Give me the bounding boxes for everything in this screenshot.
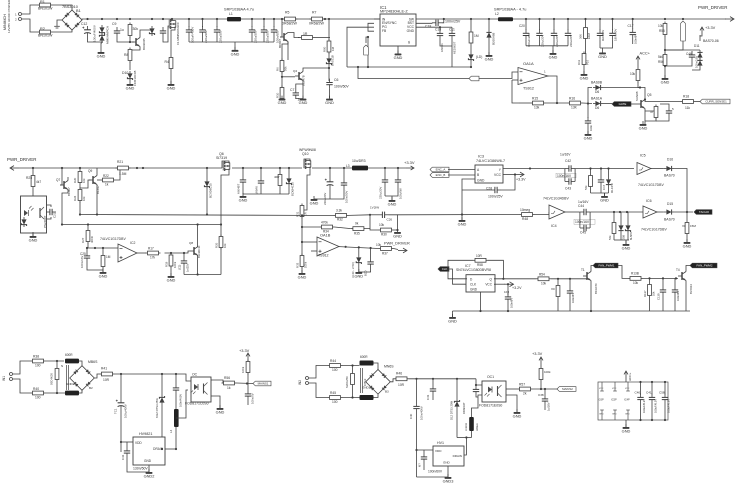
svg-text:TC1: TC1 — [114, 408, 118, 414]
wire — [507, 303, 509, 311]
svg-text:SRP1038AA - 4.7u: SRP1038AA - 4.7u — [494, 8, 526, 12]
svg-text:IC4P: IC4P — [624, 398, 630, 402]
net tag (vsense) — [681, 21, 686, 41]
wire — [567, 19, 569, 30]
net tag TACHO — [694, 210, 712, 215]
junction — [79, 167, 81, 169]
wire rail to L3 — [312, 167, 352, 169]
capacitor C25a — [382, 176, 388, 186]
wire — [126, 442, 128, 447]
svg-text:VDD: VDD — [435, 449, 442, 453]
inductor T1a (600R) — [65, 359, 79, 364]
svg-text:OC1: OC1 — [487, 375, 494, 379]
svg-text:MAINS1: MAINS1 — [258, 382, 269, 386]
svg-text:C41: C41 — [646, 391, 652, 395]
svg-text:56k: 56k — [608, 235, 612, 240]
diode D11a BAS70-06 — [697, 50, 702, 60]
wire — [600, 48, 603, 50]
svg-text:100n/400V: 100n/400V — [420, 406, 424, 420]
junction — [301, 226, 303, 228]
svg-text:C25: C25 — [80, 252, 86, 256]
diode D6 BAS0B — [593, 85, 603, 90]
junction — [502, 278, 504, 280]
svg-text:GND: GND — [298, 274, 307, 279]
buffer IC2 — [118, 244, 137, 262]
wire C28 left — [462, 189, 491, 191]
wire — [640, 382, 642, 395]
junction — [151, 18, 153, 20]
wire to Q9 base — [80, 180, 91, 188]
wire — [613, 212, 615, 221]
svg-text:+3.2V: +3.2V — [512, 286, 522, 290]
wire — [699, 36, 701, 41]
svg-text:IC2: IC2 — [130, 241, 135, 245]
wire — [539, 19, 541, 30]
svg-text:R5: R5 — [285, 11, 289, 15]
svg-text:30k: 30k — [133, 27, 139, 31]
IC3 74LVC1G86 — [475, 165, 503, 183]
wire — [279, 188, 281, 195]
junction — [644, 98, 646, 100]
junction — [161, 373, 163, 375]
junction — [470, 18, 472, 20]
wire C31 down — [120, 409, 122, 452]
ground — [580, 71, 589, 80]
svg-text:BZD: BZD — [364, 271, 368, 276]
wire — [590, 169, 592, 174]
svg-text:R33: R33 — [296, 262, 300, 268]
resistor R22 — [101, 178, 116, 182]
op-amp OA1A — [518, 68, 548, 85]
svg-text:+3.3V: +3.3V — [705, 25, 716, 30]
wire — [651, 404, 653, 421]
wire to R18 — [645, 100, 681, 102]
junction — [61, 167, 63, 169]
svg-text:AED600T: AED600T — [453, 41, 457, 54]
junction — [206, 167, 208, 169]
junction — [120, 441, 122, 443]
junction — [216, 18, 218, 20]
capacitor (output bank) — [523, 29, 529, 39]
junction — [439, 26, 441, 28]
wire VDD — [121, 441, 133, 443]
wire — [456, 379, 458, 399]
svg-text:L2: L2 — [495, 12, 499, 16]
ground — [622, 241, 631, 250]
capacitor C17 — [630, 29, 636, 39]
wire — [202, 19, 204, 27]
junction — [686, 211, 688, 213]
svg-text:R58: R58 — [477, 263, 483, 267]
svg-text:C45: C45 — [580, 231, 586, 235]
diode D18 — [618, 223, 623, 233]
svg-text:IC6P: IC6P — [598, 398, 604, 402]
svg-text:11k: 11k — [685, 106, 690, 110]
svg-text:Q8: Q8 — [189, 241, 193, 245]
wire C37 to cathode — [476, 396, 478, 398]
svg-text:1k: 1k — [105, 183, 109, 187]
wire — [161, 374, 163, 395]
svg-text:GND: GND — [661, 79, 670, 84]
junction — [120, 373, 122, 375]
diode D2 — [326, 56, 331, 66]
wire — [557, 299, 559, 312]
wire OC out — [211, 380, 225, 383]
junction — [432, 378, 434, 380]
ground — [584, 131, 593, 140]
svg-text:10k: 10k — [379, 223, 385, 227]
junction — [251, 18, 253, 20]
svg-text:10R: 10R — [398, 383, 405, 387]
resistor R13 — [584, 26, 588, 41]
svg-text:R11: R11 — [577, 60, 581, 65]
wire — [102, 248, 104, 254]
ground — [310, 196, 319, 205]
capacitor C?o — [367, 258, 373, 268]
capacitor (output bank) — [536, 29, 542, 39]
junction — [651, 419, 653, 421]
inductor L6 — [469, 417, 474, 431]
svg-text:GND: GND — [513, 413, 522, 418]
ground — [231, 47, 240, 56]
resistor R56 — [663, 53, 667, 68]
junction — [351, 364, 353, 366]
junction — [461, 213, 463, 215]
svg-text:4R7: 4R7 — [274, 175, 280, 179]
junction — [553, 18, 555, 20]
svg-text:C33: C33 — [426, 394, 430, 400]
svg-text:BCX470: BCX470 — [594, 283, 598, 294]
svg-text:100n/60V: 100n/60V — [428, 470, 443, 474]
wire — [385, 186, 398, 196]
bridge rectifier B3 (MN6S) — [366, 370, 391, 395]
svg-text:FCB10C08: FCB10C08 — [133, 70, 137, 86]
svg-text:BAS70: BAS70 — [664, 218, 675, 222]
svg-text:FOD8171C0S0: FOD8171C0S0 — [185, 402, 209, 406]
wire — [391, 196, 393, 200]
capacitor C36 — [421, 453, 427, 463]
capacitor C16 (after L1) — [249, 26, 255, 36]
capacitor C34 — [173, 384, 179, 394]
wire — [470, 45, 472, 52]
wire — [309, 366, 328, 379]
junction — [201, 18, 203, 20]
svg-text:PWR_DRIVER: PWR_DRIVER — [384, 242, 410, 246]
resistor R58 — [473, 258, 488, 262]
svg-text:R57: R57 — [519, 383, 525, 387]
junction — [590, 310, 592, 312]
wire PG loop — [347, 27, 374, 67]
junction — [415, 378, 417, 380]
wire rect rail 1 — [115, 374, 192, 381]
wire D12 down — [456, 409, 458, 438]
resistor R46 — [394, 377, 409, 381]
svg-text:GND: GND — [278, 100, 287, 105]
wire — [343, 168, 345, 179]
wire R13B to T4 — [643, 277, 678, 279]
svg-text:100n/25V: 100n/25V — [445, 20, 461, 24]
junction — [367, 66, 369, 68]
capacitor C33 — [430, 385, 436, 395]
wire — [288, 186, 290, 194]
earth mark — [54, 25, 60, 27]
wire — [87, 225, 89, 229]
wire OA1A out — [548, 76, 557, 103]
capacitor C28 — [491, 187, 501, 193]
wire — [553, 39, 555, 45]
capacitor C50 — [672, 286, 678, 296]
wire — [664, 404, 666, 421]
wire rail after Q6 — [232, 167, 302, 169]
svg-text:3.3mH: 3.3mH — [464, 423, 468, 431]
resistor R21 — [116, 166, 131, 170]
wire — [442, 19, 444, 23]
svg-text:1u/16V: 1u/16V — [560, 153, 571, 157]
svg-text:C6: C6 — [334, 78, 338, 82]
svg-text:D15: D15 — [667, 202, 673, 206]
svg-text:PWR_DRIVER: PWR_DRIVER — [698, 5, 727, 10]
wire — [692, 68, 700, 70]
ground — [485, 52, 494, 61]
svg-text:1M: 1M — [474, 34, 479, 38]
wire diode branch — [588, 88, 592, 104]
svg-text:220u/20V: 220u/20V — [541, 35, 545, 47]
resistor R50 — [589, 174, 593, 189]
wire — [314, 189, 344, 199]
wire — [696, 101, 701, 103]
svg-text:R40: R40 — [33, 387, 39, 391]
junction — [79, 213, 81, 215]
wire D9 down — [161, 405, 163, 449]
svg-text:220u/20V: 220u/20V — [218, 30, 222, 43]
wire — [384, 186, 386, 196]
svg-text:M?: M? — [418, 463, 422, 467]
wire FB bus — [347, 66, 471, 68]
svg-text:1M: 1M — [106, 255, 111, 259]
resistor R?1 (1R) — [300, 36, 315, 40]
resistor R17 — [146, 251, 161, 255]
wire — [686, 212, 688, 221]
capacitor C27 — [341, 179, 347, 189]
wire FB drop — [367, 37, 369, 67]
svg-text:10k: 10k — [82, 196, 86, 201]
ground — [549, 50, 558, 59]
wire — [87, 262, 103, 270]
zener diode D19 — [625, 223, 630, 233]
power pins IC4P — [627, 382, 629, 391]
wire — [645, 118, 656, 121]
junction — [613, 211, 615, 213]
junction — [87, 223, 89, 225]
svg-text:100n/16V: 100n/16V — [575, 220, 590, 224]
wire — [519, 102, 531, 104]
wire — [488, 40, 490, 55]
junction — [396, 229, 398, 231]
frame decoupling block — [598, 382, 668, 420]
svg-text:1u/16V: 1u/16V — [547, 402, 551, 411]
svg-text:HV9821: HV9821 — [139, 432, 152, 436]
wire Q10 source — [300, 167, 310, 210]
wire — [374, 18, 380, 20]
zener diode D4 — [204, 179, 209, 189]
wire — [599, 19, 601, 30]
svg-text:R56: R56 — [658, 60, 664, 64]
svg-text:HV1: HV1 — [437, 441, 444, 445]
diode D15 BAS70 — [664, 209, 674, 214]
net tag ENC_A — [430, 167, 449, 172]
wire — [432, 379, 434, 385]
svg-text:+3.3V: +3.3V — [404, 160, 415, 165]
resistor R18 — [681, 100, 696, 104]
svg-text:MP24830HLE-Z: MP24830HLE-Z — [380, 10, 408, 14]
svg-text:D6: D6 — [595, 90, 599, 94]
wire — [247, 384, 249, 391]
phototransistor (inside OC) — [204, 383, 208, 395]
transformer core CH1 — [360, 368, 362, 393]
svg-text:C22: C22 — [53, 212, 57, 218]
svg-text:FAN_PWM1: FAN_PWM1 — [599, 264, 615, 268]
svg-text:100uF/6.3V: 100uF/6.3V — [666, 399, 670, 413]
svg-text:13K: 13K — [571, 106, 578, 110]
svg-text:17k: 17k — [150, 256, 156, 260]
svg-text:R56: R56 — [224, 376, 230, 380]
wire — [175, 374, 177, 384]
svg-text:GND: GND — [388, 201, 397, 206]
wire — [649, 298, 651, 312]
wire Q7 emitter — [62, 190, 68, 225]
wire — [640, 404, 642, 421]
svg-text:R19: R19 — [165, 261, 169, 267]
capacitor C30b — [413, 403, 419, 413]
svg-text:100uF/400V: 100uF/400V — [190, 27, 194, 43]
wire Q5 collector — [638, 82, 645, 100]
junction — [161, 448, 163, 450]
svg-text:1V2IW: 1V2IW — [370, 206, 379, 210]
svg-text:10k: 10k — [630, 72, 636, 76]
wire to IC3 A — [448, 169, 475, 171]
svg-text:D10: D10 — [122, 71, 128, 75]
wire — [608, 187, 610, 193]
junction — [260, 167, 262, 169]
wire — [471, 410, 473, 417]
wire — [627, 212, 629, 223]
svg-text:R22: R22 — [103, 174, 109, 178]
junction — [556, 102, 558, 104]
connector pin 2 — [19, 18, 22, 21]
svg-text:N: N — [61, 364, 63, 368]
wire Q4 emitter — [302, 81, 304, 99]
wire — [440, 40, 452, 47]
capacitor C20 — [258, 177, 264, 187]
svg-text:R31: R31 — [296, 211, 300, 217]
wire OA1B in- — [311, 250, 317, 252]
svg-text:TACHO: TACHO — [699, 210, 710, 214]
wire — [603, 103, 612, 105]
svg-text:C17: C17 — [602, 184, 606, 190]
optocoupler OC FOD8171 — [191, 377, 211, 402]
phototransistor (inside optocoupler U2) — [40, 207, 44, 219]
wire — [298, 37, 300, 39]
svg-text:GND: GND — [458, 221, 467, 226]
wire — [242, 186, 244, 194]
svg-text:100: 100 — [35, 396, 41, 400]
wire — [47, 217, 52, 219]
svg-text:600R: 600R — [360, 355, 368, 359]
resistor R7 — [310, 17, 325, 21]
svg-text:ENC_A: ENC_A — [436, 168, 446, 172]
svg-text:C9: C9 — [112, 22, 116, 26]
net tag MAINS_DET2 — [557, 387, 576, 392]
wire — [539, 39, 541, 45]
svg-text:10R: 10R — [476, 254, 483, 258]
power arrow IC3 VCC — [515, 172, 524, 177]
wire OA1B out — [339, 247, 379, 249]
wire — [423, 463, 425, 470]
wire OA1B in+ — [302, 241, 317, 243]
junction — [544, 388, 546, 390]
svg-text:C11: C11 — [449, 28, 455, 32]
diode D16 BAS70 — [664, 166, 674, 171]
svg-text:+3.3V: +3.3V — [239, 348, 250, 353]
wire — [366, 37, 368, 43]
wire — [637, 64, 639, 68]
svg-text:(C2): (C2) — [178, 265, 182, 270]
inductor T1b (600R) — [65, 391, 79, 396]
junction — [101, 18, 103, 20]
wire cap bank ground bus — [189, 41, 274, 43]
svg-text:R46: R46 — [396, 371, 402, 375]
svg-text:(LD): (LD) — [476, 55, 482, 59]
svg-text:0R68/2W: 0R68/2W — [309, 22, 325, 26]
wire — [53, 30, 73, 32]
wire — [120, 374, 122, 399]
wire — [358, 247, 360, 255]
wire — [366, 215, 370, 229]
op-amp OA1B — [317, 237, 339, 256]
wire snubber gnd bus — [243, 193, 289, 195]
junction — [288, 167, 290, 169]
LED (inside optocoupler U2) — [24, 206, 34, 216]
svg-text:R10: R10 — [276, 92, 280, 98]
svg-text:GND3: GND3 — [443, 478, 454, 483]
wire — [440, 26, 452, 28]
wire — [674, 296, 676, 311]
wire LED cathode down — [176, 390, 188, 418]
svg-text:100n/6V: 100n/6V — [251, 393, 255, 404]
wire — [423, 450, 425, 453]
resistor R24a — [78, 188, 82, 203]
wire — [700, 35, 702, 36]
junction — [567, 18, 569, 20]
svg-text:%SZ DTS3 25%: %SZ DTS3 25% — [155, 398, 159, 418]
resistor R56b — [222, 381, 237, 385]
junction — [479, 310, 481, 312]
svg-text:R4: R4 — [165, 60, 169, 64]
wire — [57, 20, 62, 26]
wire ground run to R48 — [398, 214, 520, 216]
ground GND3 — [443, 474, 454, 483]
wire — [251, 36, 253, 42]
wire — [632, 19, 634, 29]
junction — [475, 384, 477, 386]
wire — [525, 39, 527, 45]
IC HV9821 — [133, 437, 165, 465]
junction — [116, 18, 118, 20]
power +3.3V — [406, 166, 414, 170]
svg-text:0R68/2W: 0R68/2W — [282, 22, 298, 26]
ground — [278, 96, 287, 105]
wire — [370, 248, 372, 258]
